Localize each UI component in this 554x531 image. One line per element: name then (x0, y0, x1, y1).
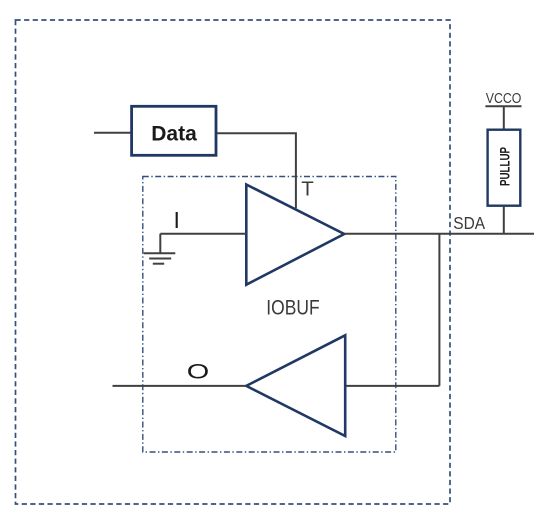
svg-text:IOBUF: IOBUF (266, 297, 319, 320)
svg-text:O: O (187, 360, 210, 384)
wire pullup to SDA (503, 206, 505, 234)
O output wire (113, 385, 247, 387)
svg-text:I: I (174, 207, 180, 233)
svg-text:SDA: SDA (453, 213, 485, 233)
wire into Data block (94, 132, 131, 134)
SDA output wire (344, 233, 534, 235)
svg-text:PULLUP: PULLUP (497, 147, 512, 186)
wire junction down to input buffer (438, 234, 440, 386)
wire from SDA branch into input buffer (345, 385, 439, 387)
svg-text:VCCO: VCCO (486, 90, 522, 107)
resistor PULLUP (488, 130, 521, 206)
svg-text:T: T (301, 178, 314, 201)
tristate output buffer U1 (triangle) (246, 185, 344, 285)
Data block (132, 106, 216, 155)
outer dashed boundary box (16, 20, 451, 504)
IOBUF dash-dot boundary box (143, 177, 396, 453)
svg-text:Data: Data (151, 123, 197, 146)
wire from Data block to T pin (217, 133, 296, 208)
input buffer U2 (triangle pointing left) (246, 335, 345, 436)
ground (144, 234, 176, 264)
wire VCCO to pullup (503, 106, 505, 130)
I input wire (160, 233, 246, 235)
